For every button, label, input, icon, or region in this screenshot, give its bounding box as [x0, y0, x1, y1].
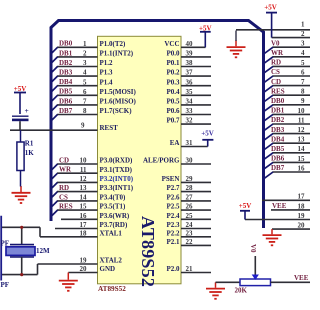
svg-text:18: 18: [298, 202, 306, 210]
svg-text:P3.4(T0): P3.4(T0): [100, 194, 127, 202]
svg-text:P3.0(RXD): P3.0(RXD): [100, 157, 134, 165]
svg-text:17: 17: [80, 221, 88, 229]
svg-text:P3.1(TXD): P3.1(TXD): [100, 166, 133, 174]
svg-text:24: 24: [186, 221, 194, 229]
svg-text:P0.4: P0.4: [166, 88, 180, 96]
svg-text:DB3: DB3: [271, 126, 285, 134]
svg-text:18: 18: [80, 229, 88, 237]
svg-text:WR: WR: [59, 166, 72, 174]
svg-text:14: 14: [80, 194, 88, 202]
svg-text:DB0: DB0: [59, 40, 73, 48]
svg-text:39: 39: [186, 50, 194, 58]
svg-text:DB1: DB1: [59, 49, 73, 57]
svg-text:P1.0(T2): P1.0(T2): [100, 40, 127, 48]
svg-text:VEE: VEE: [272, 202, 287, 210]
svg-text:+5V: +5V: [201, 129, 214, 137]
svg-text:VEE: VEE: [294, 274, 309, 282]
svg-text:20K: 20K: [235, 287, 248, 295]
svg-text:12M: 12M: [36, 247, 50, 255]
svg-text:9: 9: [301, 97, 305, 105]
svg-text:6: 6: [301, 68, 305, 76]
svg-text:R1: R1: [25, 140, 34, 148]
svg-text:PSEN: PSEN: [162, 175, 180, 183]
svg-text:1: 1: [301, 20, 305, 28]
svg-text:15: 15: [298, 155, 306, 163]
svg-text:DB3: DB3: [59, 69, 73, 77]
svg-text:DB1: DB1: [271, 107, 285, 115]
svg-text:DB6: DB6: [271, 155, 285, 163]
svg-text:P2.7: P2.7: [166, 184, 180, 192]
svg-text:P3.6(WR): P3.6(WR): [100, 212, 130, 220]
svg-text:EA: EA: [170, 139, 180, 147]
svg-text:1: 1: [83, 40, 87, 48]
svg-text:P2.4: P2.4: [166, 212, 180, 220]
svg-text:P1.7(SCK): P1.7(SCK): [100, 107, 133, 115]
svg-text:P0.5: P0.5: [166, 98, 180, 106]
svg-text:VCC: VCC: [164, 40, 179, 48]
svg-text:P1.6(MISO): P1.6(MISO): [100, 98, 137, 106]
svg-text:P2.2: P2.2: [166, 229, 180, 237]
svg-text:P3.7(RD): P3.7(RD): [100, 221, 128, 229]
svg-text:22: 22: [186, 238, 194, 246]
svg-text:DB2: DB2: [59, 59, 73, 67]
svg-text:14: 14: [298, 145, 306, 153]
svg-text:7: 7: [83, 98, 87, 106]
svg-text:DB5: DB5: [271, 145, 285, 153]
svg-text:17: 17: [298, 193, 306, 201]
svg-text:13: 13: [298, 136, 306, 144]
svg-text:XTAL1: XTAL1: [100, 229, 123, 237]
svg-text:9: 9: [81, 121, 85, 129]
svg-text:8: 8: [301, 88, 305, 96]
svg-text:AT89S52: AT89S52: [138, 216, 158, 287]
svg-text:+5V: +5V: [264, 3, 277, 11]
svg-text:5: 5: [301, 59, 305, 67]
svg-text:CS: CS: [271, 68, 280, 76]
svg-text:37: 37: [186, 69, 194, 77]
svg-text:DB5: DB5: [59, 88, 73, 96]
svg-text:3: 3: [301, 40, 305, 48]
svg-text:10: 10: [80, 157, 88, 165]
svg-text:32: 32: [186, 117, 194, 125]
svg-text:19: 19: [298, 212, 306, 220]
svg-text:P0.3: P0.3: [166, 78, 180, 86]
svg-text:15: 15: [80, 203, 88, 211]
svg-text:XTAL2: XTAL2: [100, 257, 123, 265]
svg-text:29: 29: [186, 175, 194, 183]
svg-text:RD: RD: [59, 184, 69, 192]
svg-text:CS: CS: [59, 193, 68, 201]
svg-text:12: 12: [80, 175, 88, 183]
svg-text:26: 26: [186, 203, 194, 211]
svg-text:16: 16: [80, 212, 88, 220]
svg-text:5: 5: [83, 78, 87, 86]
svg-text:P1.5(MOSI): P1.5(MOSI): [100, 88, 137, 96]
svg-text:P2.1: P2.1: [166, 238, 180, 246]
svg-text:P0.1: P0.1: [166, 59, 180, 67]
svg-text:21: 21: [186, 265, 194, 273]
svg-text:25: 25: [186, 212, 194, 220]
svg-text:DB6: DB6: [59, 97, 73, 105]
svg-text:36: 36: [186, 78, 194, 86]
svg-text:28: 28: [186, 184, 194, 192]
svg-text:P2.5: P2.5: [166, 203, 180, 211]
svg-text:PF: PF: [1, 240, 10, 248]
svg-text:19: 19: [80, 257, 88, 265]
svg-text:1K: 1K: [25, 149, 35, 157]
svg-text:P0.6: P0.6: [166, 107, 180, 115]
svg-text:P0.0: P0.0: [166, 50, 180, 58]
svg-text:V0: V0: [249, 244, 257, 253]
svg-text:+5V: +5V: [239, 202, 252, 210]
svg-text:8: 8: [83, 107, 87, 115]
svg-text:V0: V0: [271, 39, 280, 47]
svg-text:RES: RES: [271, 87, 285, 95]
svg-text:11: 11: [80, 166, 87, 174]
svg-text:27: 27: [186, 194, 194, 202]
svg-text:13: 13: [80, 184, 88, 192]
svg-text:4: 4: [83, 69, 87, 77]
svg-text:CD: CD: [59, 156, 69, 164]
svg-text:P3.5(T1): P3.5(T1): [100, 203, 127, 211]
svg-text:P2.0: P2.0: [166, 265, 180, 273]
svg-text:23: 23: [186, 229, 194, 237]
svg-text:P0.2: P0.2: [166, 69, 180, 77]
svg-text:3: 3: [83, 59, 87, 67]
svg-text:31: 31: [186, 139, 194, 147]
svg-text:P3.3(INT1): P3.3(INT1): [100, 184, 134, 192]
svg-text:20: 20: [298, 222, 306, 230]
svg-text:35: 35: [186, 88, 194, 96]
svg-text:DB2: DB2: [271, 116, 285, 124]
svg-text:34: 34: [186, 98, 194, 106]
svg-text:P1.3: P1.3: [100, 69, 114, 77]
svg-text:DB7: DB7: [271, 164, 285, 172]
svg-text:AT89S52: AT89S52: [98, 285, 126, 293]
svg-text:DB7: DB7: [59, 107, 73, 115]
svg-text:REST: REST: [100, 124, 119, 132]
svg-text:RD: RD: [271, 59, 281, 67]
svg-text:RES: RES: [59, 203, 73, 211]
svg-text:10: 10: [298, 107, 306, 115]
svg-text:6: 6: [83, 88, 87, 96]
svg-text:P2.6: P2.6: [166, 194, 180, 202]
svg-text:40: 40: [186, 40, 194, 48]
svg-text:P3.2(INT0): P3.2(INT0): [100, 175, 134, 183]
svg-text:2: 2: [83, 50, 87, 58]
svg-text:DB0: DB0: [271, 97, 285, 105]
svg-text:P0.7: P0.7: [166, 117, 180, 125]
svg-text:38: 38: [186, 59, 194, 67]
svg-text:33: 33: [186, 107, 194, 115]
svg-text:7: 7: [301, 78, 305, 86]
svg-text:CD: CD: [271, 78, 281, 86]
svg-text:DB4: DB4: [59, 78, 73, 86]
svg-text:P2.3: P2.3: [166, 221, 180, 229]
svg-text:P1.2: P1.2: [100, 59, 114, 67]
svg-text:30: 30: [186, 157, 194, 165]
svg-text:GND: GND: [100, 265, 116, 273]
svg-text:2: 2: [301, 30, 305, 38]
svg-text:20: 20: [80, 265, 88, 273]
svg-text:DB4: DB4: [271, 135, 285, 143]
svg-text:P1.4: P1.4: [100, 78, 114, 86]
svg-text:4: 4: [301, 49, 305, 57]
svg-text:16: 16: [298, 164, 306, 172]
svg-text:WR: WR: [271, 49, 284, 57]
svg-text:PF: PF: [1, 281, 10, 289]
svg-text:+: +: [25, 106, 29, 115]
svg-text:12: 12: [298, 126, 306, 134]
svg-text:P1.1(INT2): P1.1(INT2): [100, 50, 134, 58]
svg-text:11: 11: [298, 116, 305, 124]
svg-text:ALE/PORG: ALE/PORG: [143, 157, 180, 165]
